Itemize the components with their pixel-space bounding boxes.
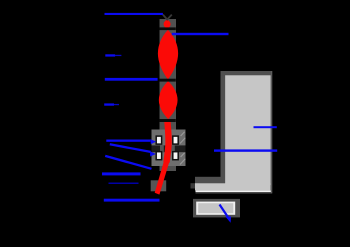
leader E dim y183 — [109, 183, 139, 185]
leader L3 diagonal to cavity bottom — [105, 156, 151, 169]
leader right long y151 — [214, 149, 277, 151]
leader stub y55 — [105, 54, 115, 56]
atom cloud blob B — [158, 30, 178, 80]
vacuum tube (gray vertical band behind beam) — [160, 19, 177, 171]
column left dark edge — [221, 71, 226, 183]
leader stub y104 — [104, 103, 114, 105]
node tick 1 — [159, 27, 176, 30]
detection drawer inner — [198, 203, 233, 213]
column right edge — [271, 71, 273, 193]
column light fill — [225, 75, 271, 185]
leader line to node y79 — [105, 78, 158, 81]
bottom-left gray block — [151, 180, 167, 191]
foot step (darker) — [191, 183, 200, 188]
cavity window bottom-left — [156, 152, 161, 160]
cavity window top-left — [156, 136, 161, 144]
support column foot (dark bar) — [195, 177, 221, 183]
launch arrow V at top — [163, 15, 172, 20]
cavity window bottom-right — [173, 152, 178, 160]
base slab light — [195, 183, 271, 190]
tube strip left over gap — [160, 145, 164, 152]
leader L1 horizontal to top-left window — [106, 140, 150, 142]
drawer arrow — [220, 205, 229, 218]
leader right short y127 — [254, 126, 277, 128]
column top dark edge — [221, 71, 273, 75]
leader D y174 — [102, 172, 141, 175]
leader F y200 — [104, 199, 160, 202]
microwave cavity block — [152, 130, 186, 167]
beam line through cavity — [167, 119, 169, 163]
tube strip right over gap — [170, 145, 175, 152]
leader L2 diagonal to bottom-left window — [110, 144, 151, 152]
leader right of apex y34 — [172, 33, 229, 35]
cavity hatch marks right — [180, 132, 185, 165]
detection drawer white frame — [196, 202, 235, 215]
atom cloud blob A (top small) — [164, 19, 171, 29]
node tick 3 — [159, 119, 176, 122]
node tick 2 — [159, 79, 176, 82]
leader line top-left — [105, 13, 163, 15]
detection drawer outer — [193, 199, 240, 218]
slab white line — [196, 190, 272, 192]
beam bottom diagonal — [155, 160, 170, 194]
cavity window top-right — [173, 136, 178, 144]
slab dark underline — [196, 192, 273, 193]
cavity mid gap — [152, 145, 186, 152]
atom cloud blob C — [159, 81, 178, 119]
